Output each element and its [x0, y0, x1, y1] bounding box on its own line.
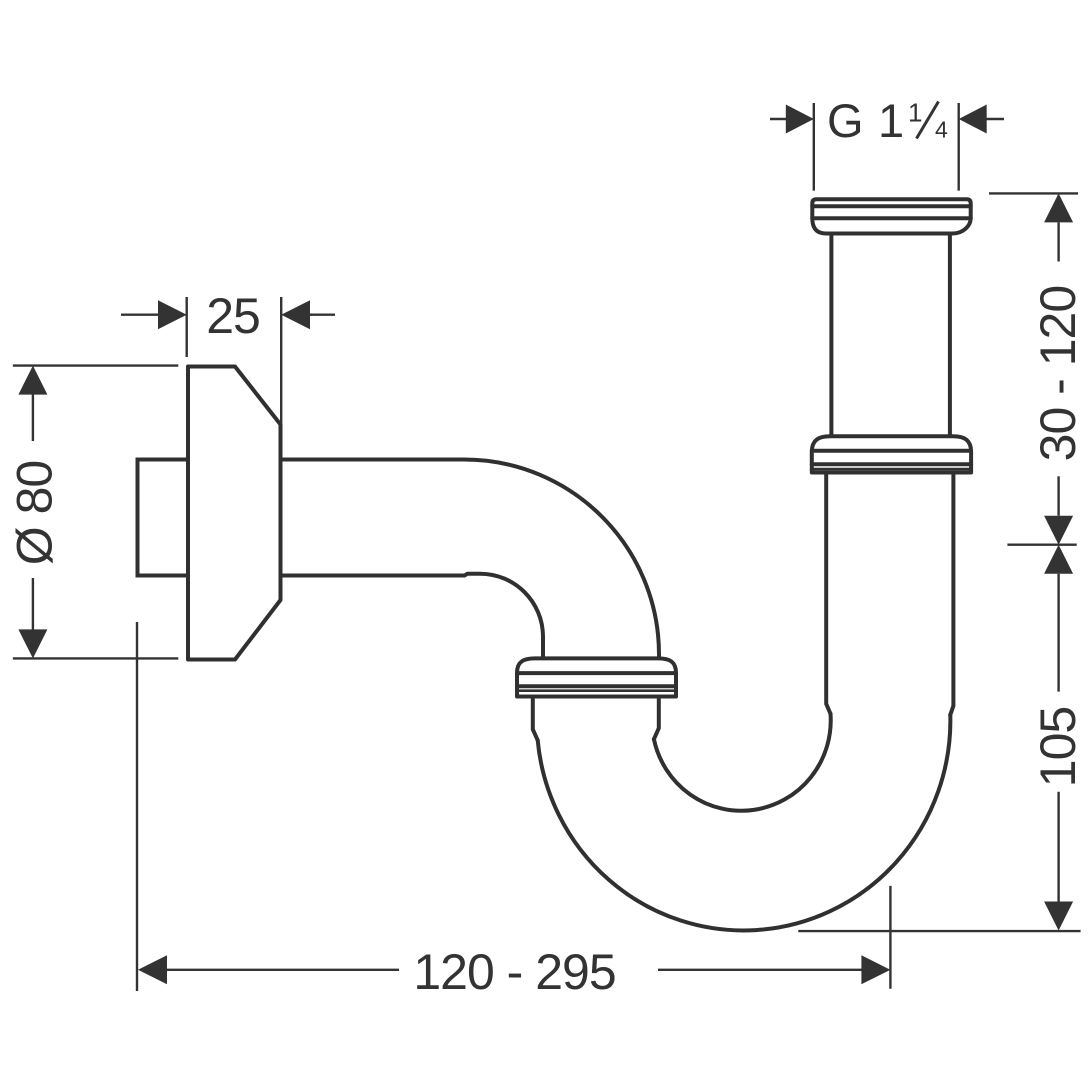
svg-text:1: 1 [878, 94, 903, 147]
svg-text:120 - 295: 120 - 295 [413, 944, 615, 1000]
svg-text:25: 25 [206, 288, 260, 344]
svg-text:1: 1 [908, 98, 922, 128]
svg-text:105: 105 [1030, 707, 1086, 787]
svg-text:G: G [827, 94, 863, 147]
svg-text:30 - 120: 30 - 120 [1030, 286, 1086, 461]
svg-text:Ø 80: Ø 80 [7, 461, 63, 565]
svg-text:4: 4 [935, 117, 948, 143]
